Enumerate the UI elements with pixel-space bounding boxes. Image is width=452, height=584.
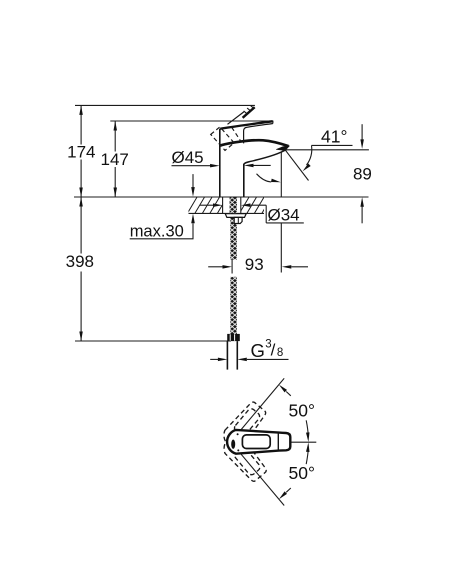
svg-text:147: 147	[101, 150, 129, 169]
svg-text:41°: 41°	[321, 126, 347, 146]
svg-text:398: 398	[66, 252, 94, 271]
svg-text:max.30: max.30	[130, 223, 184, 241]
svg-text:Ø45: Ø45	[172, 148, 204, 167]
svg-text:50°: 50°	[289, 400, 315, 420]
svg-text:G: G	[251, 340, 265, 361]
svg-text:89: 89	[353, 165, 372, 184]
svg-text:93: 93	[245, 255, 264, 274]
svg-text:8: 8	[277, 347, 283, 359]
svg-text:/: /	[271, 340, 276, 359]
svg-text:50°: 50°	[289, 463, 315, 483]
svg-text:Ø34: Ø34	[268, 206, 300, 225]
svg-text:174: 174	[67, 143, 95, 162]
